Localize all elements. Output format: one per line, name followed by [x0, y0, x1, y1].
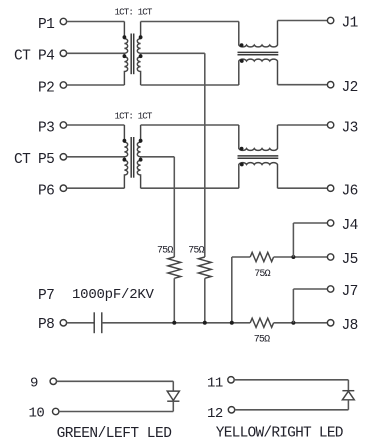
- wire choke L2 to J6: [278, 187, 328, 189]
- svg-text:CT: CT: [14, 152, 31, 168]
- polarity dot T2 secondary lower: [139, 158, 143, 162]
- terminal pad pin 10: [53, 408, 59, 414]
- resistor R2 75ohm vertical: [198, 257, 211, 278]
- svg-text:P1: P1: [38, 17, 54, 33]
- wire LED1 cathode to pin10: [59, 411, 174, 413]
- choke L2 lower winding: [239, 163, 278, 189]
- terminal pad P1: [60, 18, 66, 24]
- choke L2 core: [238, 155, 279, 157]
- terminal pad J3: [327, 122, 333, 128]
- terminal pad J6: [327, 185, 333, 191]
- wire LED1 cathode drop: [172, 401, 174, 411]
- svg-text:J3: J3: [342, 120, 358, 136]
- svg-text:11: 11: [207, 376, 223, 392]
- svg-text:J5: J5: [342, 252, 358, 268]
- svg-text:J2: J2: [342, 80, 358, 96]
- wire P2 to T1 primary bottom: [67, 84, 125, 86]
- polarity dot T2 primary upper: [123, 139, 127, 143]
- svg-text:P5: P5: [38, 152, 54, 168]
- svg-text:J8: J8: [342, 318, 358, 334]
- svg-text:J4: J4: [342, 218, 358, 234]
- svg-text:YELLOW/RIGHT LED: YELLOW/RIGHT LED: [216, 425, 343, 441]
- terminal pad P5: [60, 154, 66, 160]
- wire LED2 cathode drop: [347, 380, 349, 391]
- svg-text:P7: P7: [38, 288, 54, 304]
- transformer T2 primary winding: [124, 125, 127, 188]
- polarity dot L2 upper: [240, 147, 244, 151]
- svg-text:J1: J1: [342, 16, 358, 32]
- terminal pad J4: [327, 220, 333, 226]
- junction J4/J5 node: [291, 255, 295, 259]
- transformer T2 core: [130, 137, 132, 178]
- wire T1 secondary bottom to choke L1: [141, 84, 239, 86]
- svg-text:75Ω: 75Ω: [254, 335, 270, 346]
- junction J7/J8 node: [291, 321, 295, 325]
- wire P8 to C1: [67, 322, 95, 324]
- wire T1 secondary center tap: [141, 52, 205, 54]
- polarity dot L1 lower: [240, 59, 244, 63]
- terminal pad P8: [60, 320, 66, 326]
- polarity dot T2 primary lower: [123, 158, 127, 162]
- junction R1/bus: [172, 321, 176, 325]
- wire riser at x231: [231, 257, 233, 323]
- wire P5 to T2 primary center tap: [67, 156, 125, 158]
- polarity dot T1 primary upper: [123, 35, 127, 39]
- wire R4 to J8: [274, 322, 328, 324]
- wire P3 to T2 primary top: [67, 124, 125, 126]
- svg-text:75Ω: 75Ω: [254, 269, 270, 280]
- polarity dot T1 secondary lower: [139, 54, 143, 58]
- polarity dot T1 primary lower: [123, 54, 127, 58]
- wire choke L1 to J2: [278, 84, 328, 86]
- wire T1 secondary top to choke L1: [141, 21, 239, 23]
- terminal pad J8: [327, 320, 333, 326]
- choke L1 upper winding: [239, 21, 278, 47]
- terminal pad pin 12: [228, 407, 234, 413]
- transformer T1 primary winding: [124, 22, 127, 86]
- svg-text:1CT: 1CT: 1CT: 1CT: [115, 7, 153, 18]
- resistor R4 75ohm horizontal on bus: [250, 318, 273, 327]
- LED D1 green/left (cathode down): [167, 391, 179, 400]
- wire T2 secondary center tap: [141, 156, 175, 158]
- svg-text:P2: P2: [38, 80, 54, 96]
- svg-text:75Ω: 75Ω: [157, 246, 173, 257]
- wire LED2 anode drop: [347, 400, 349, 410]
- svg-text:10: 10: [29, 406, 45, 422]
- wire R2 bottom to bus: [204, 278, 206, 323]
- wire R3 to J5: [274, 256, 328, 258]
- transformer T2 secondary winding: [137, 125, 140, 188]
- wire pin9 to LED1 anode: [56, 380, 173, 382]
- svg-text:P4: P4: [38, 49, 54, 65]
- svg-text:P8: P8: [38, 317, 54, 333]
- terminal pad P6: [60, 185, 66, 191]
- wire P1 to T1 primary top: [67, 21, 125, 23]
- svg-text:1000pF/2KV: 1000pF/2KV: [72, 287, 155, 303]
- wire P6 to T2 primary bottom: [67, 187, 125, 189]
- wire to J4: [293, 222, 327, 224]
- terminal pad P3: [60, 122, 66, 128]
- svg-text:1CT: 1CT: 1CT: 1CT: [115, 111, 153, 122]
- wire T2 secondary top to choke L2: [141, 124, 239, 126]
- wire choke L1 to J1: [278, 20, 328, 22]
- LED D1 cathode bar: [167, 400, 179, 402]
- svg-text:GREEN/LEFT LED: GREEN/LEFT LED: [57, 426, 172, 442]
- terminal pad J2: [327, 82, 333, 88]
- wire T2 tap down to R1: [173, 157, 175, 257]
- svg-text:P3: P3: [38, 120, 54, 136]
- terminal pad J7: [327, 286, 333, 292]
- wire J4 branch vertical: [292, 223, 294, 257]
- LED D2 cathode bar: [342, 390, 354, 392]
- terminal pad P2: [60, 82, 66, 88]
- wire pin11 to LED2 cathode: [234, 379, 348, 381]
- capacitor C1 1000pF/2KV: [93, 312, 95, 333]
- resistor R1 75ohm vertical: [168, 257, 181, 278]
- terminal pad J5: [327, 254, 333, 260]
- svg-text:9: 9: [30, 376, 38, 392]
- wire C1 to ground bus: [102, 322, 250, 324]
- svg-text:75Ω: 75Ω: [188, 246, 204, 257]
- LED D2 yellow/right (cathode up): [342, 391, 354, 400]
- svg-text:CT: CT: [14, 49, 31, 65]
- terminal pad pin 9: [50, 378, 56, 384]
- choke L1 core: [238, 51, 279, 53]
- wire J7 branch vertical: [292, 289, 294, 323]
- junction riser/bus: [230, 321, 234, 325]
- wire T2 secondary bottom to choke L2: [141, 187, 239, 189]
- terminal pad pin 11: [228, 377, 234, 383]
- resistor R3 75ohm horizontal: [250, 252, 273, 261]
- wire to J7: [293, 288, 327, 290]
- polarity dot L2 lower: [240, 163, 244, 167]
- terminal pad P4: [60, 50, 66, 56]
- choke L1 lower winding: [239, 59, 278, 85]
- wire LED2 anode to pin12: [235, 409, 349, 411]
- choke L2 upper winding: [239, 125, 278, 150]
- wire P4 to T1 primary center tap: [67, 52, 125, 54]
- junction R2/bus: [203, 321, 207, 325]
- transformer T1 core: [130, 34, 132, 75]
- polarity dot T2 secondary upper: [139, 139, 143, 143]
- transformer T1 secondary winding: [137, 22, 140, 86]
- svg-text:P6: P6: [38, 184, 54, 200]
- svg-text:J6: J6: [342, 183, 358, 199]
- wire LED1 anode drop: [172, 381, 174, 391]
- wire R1 bottom to bus: [173, 278, 175, 323]
- wire bus riser to R3: [232, 256, 250, 258]
- polarity dot L1 upper: [240, 43, 244, 47]
- wire T1 tap down to R2: [204, 53, 206, 257]
- svg-text:J7: J7: [342, 284, 358, 300]
- wire choke L2 to J3: [278, 124, 328, 126]
- polarity dot T1 secondary upper: [139, 35, 143, 39]
- svg-text:12: 12: [207, 406, 223, 422]
- terminal pad J1: [327, 17, 333, 23]
